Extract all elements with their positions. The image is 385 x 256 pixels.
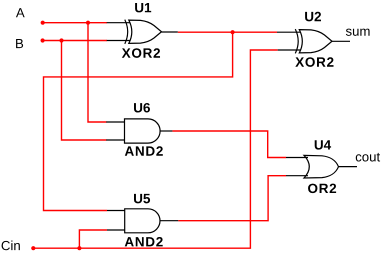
xor gate U2 [277, 29, 350, 53]
wire net B riser to U6 input [62, 41, 107, 141]
wire net A riser to U6 input [88, 23, 107, 122]
node cout label [356, 153, 380, 162]
value AND2 for U6 [125, 146, 163, 155]
node Cin label [2, 241, 20, 251]
junction dot on net A at riser [86, 21, 90, 25]
wire U1 output to U2 input [178, 31, 277, 33]
junction dot net A start [41, 21, 45, 25]
junction dot on Cin at U5 branch [77, 246, 81, 250]
or gate U4 [286, 155, 357, 178]
wire U5 output to U4 input [178, 176, 286, 221]
label U2 [305, 12, 321, 22]
label U6 [134, 103, 150, 113]
value OR2 for U4 [308, 184, 336, 194]
value XOR2 for U1 [122, 48, 160, 58]
label U1 [135, 3, 151, 12]
and gate U6 [106, 119, 172, 143]
junction dot on U1 output at half-sum branch [231, 30, 235, 34]
wire net Cin horizontal and riser to U2 input [33, 50, 277, 248]
wire net A horizontal [43, 22, 107, 24]
wire U6 output to U4 input [172, 131, 286, 158]
wire half-sum branch to U5 input [44, 32, 233, 210]
value XOR2 for U2 [295, 57, 333, 67]
wire net B horizontal [43, 40, 107, 42]
value AND2 for U5 [125, 237, 163, 246]
and gate U5 [107, 209, 178, 233]
junction dot on net B at riser [59, 38, 63, 42]
node sum label [346, 29, 370, 36]
junction dot net Cin start [31, 246, 35, 250]
junction dot net B start [41, 38, 45, 42]
node A label [16, 8, 25, 17]
node B label [16, 39, 23, 48]
label U4 [315, 140, 331, 149]
xor gate U1 [107, 20, 178, 44]
label U5 [134, 194, 150, 203]
wire Cin branch to U5 input [79, 230, 107, 248]
